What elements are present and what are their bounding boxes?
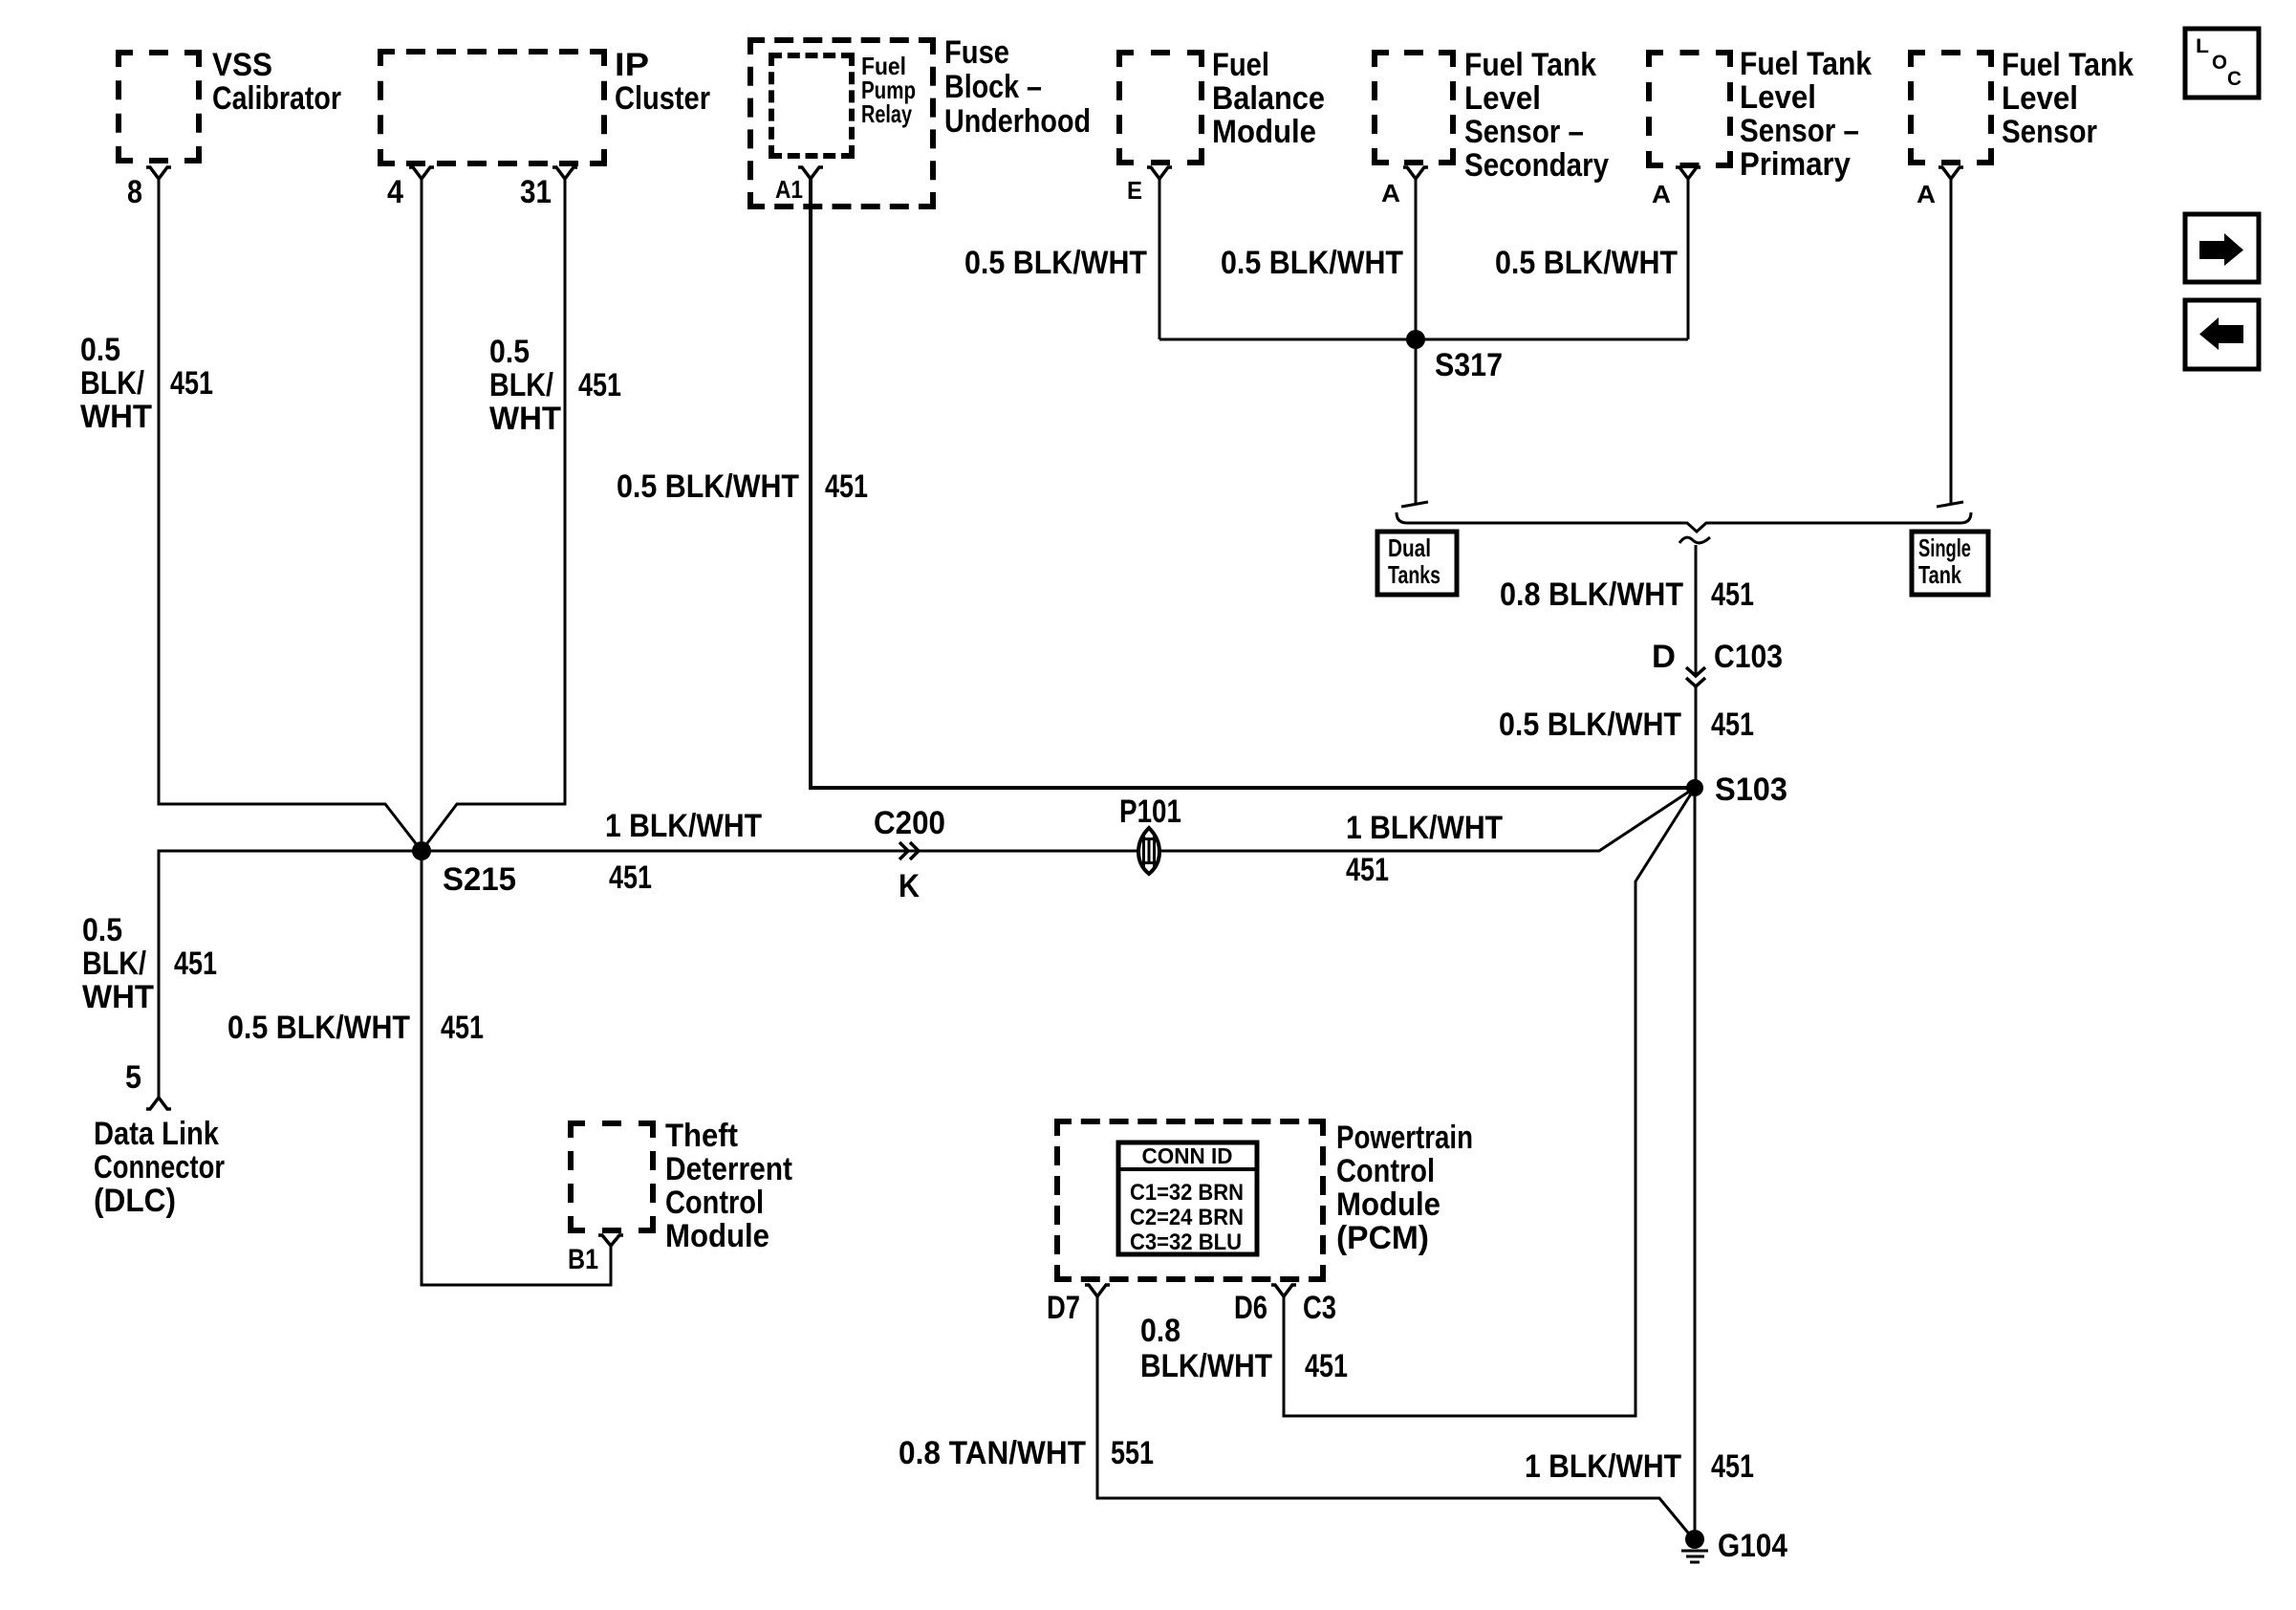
component box IP Cluster bbox=[380, 47, 710, 163]
component box Fuel Tank Level Sensor bbox=[1911, 47, 2134, 163]
svg-text:Module: Module bbox=[665, 1218, 769, 1254]
wire IP pin 4 to S215 bbox=[421, 179, 423, 851]
wire label 0.5 BLK/WHT 451 (IP 31 wire) bbox=[489, 334, 621, 437]
svg-text:A: A bbox=[1652, 180, 1671, 208]
wire E to S317 bbox=[1159, 179, 1161, 339]
svg-text:0.5 BLK/WHT: 0.5 BLK/WHT bbox=[1495, 245, 1678, 281]
svg-text:Level: Level bbox=[1464, 80, 1541, 117]
svg-text:0.5 BLK/WHT: 0.5 BLK/WHT bbox=[1221, 245, 1403, 281]
legend left arrow box bbox=[2185, 300, 2259, 369]
svg-text:BLK/: BLK/ bbox=[80, 365, 144, 402]
svg-text:S317: S317 bbox=[1435, 347, 1503, 383]
svg-text:A1: A1 bbox=[775, 175, 803, 204]
svg-text:1 BLK/WHT: 1 BLK/WHT bbox=[1525, 1448, 1681, 1485]
svg-text:C2=24 BRN: C2=24 BRN bbox=[1130, 1205, 1244, 1230]
svg-text:C3=32 BLU: C3=32 BLU bbox=[1130, 1229, 1242, 1255]
svg-text:Module: Module bbox=[1212, 114, 1316, 150]
svg-text:451: 451 bbox=[609, 859, 652, 896]
component box Fuel Balance Module bbox=[1119, 47, 1325, 163]
svg-text:A: A bbox=[1917, 180, 1936, 208]
wire label 0.5 BLK/WHT 451 (below S215) bbox=[227, 1010, 484, 1046]
svg-text:IP: IP bbox=[615, 47, 649, 83]
svg-text:C: C bbox=[2227, 68, 2242, 90]
pin A of secondary sensor bbox=[1381, 167, 1428, 207]
svg-text:Relay: Relay bbox=[861, 99, 912, 128]
svg-text:C200: C200 bbox=[874, 805, 945, 841]
svg-text:Primary: Primary bbox=[1740, 146, 1851, 183]
svg-text:451: 451 bbox=[825, 468, 868, 505]
pin A of primary sensor bbox=[1652, 167, 1700, 208]
svg-text:(PCM): (PCM) bbox=[1336, 1220, 1429, 1256]
svg-text:B1: B1 bbox=[568, 1244, 598, 1275]
svg-text:Control: Control bbox=[665, 1185, 764, 1221]
label box Single Tank bbox=[1912, 532, 1988, 595]
svg-text:Calibrator: Calibrator bbox=[212, 80, 341, 117]
component box Fuel Tank Level Sensor - Secondary bbox=[1375, 47, 1609, 184]
pin 8 of VSS Calibrator bbox=[127, 167, 171, 210]
pin 31 of IP Cluster bbox=[520, 167, 577, 210]
wire C103 to S103 bbox=[1695, 686, 1698, 788]
svg-text:C103: C103 bbox=[1714, 639, 1783, 675]
svg-text:Secondary: Secondary bbox=[1464, 147, 1609, 184]
wire label 0.8 BLK/WHT 451 (D6 wire) bbox=[1140, 1313, 1348, 1384]
svg-text:Sensor –: Sensor – bbox=[1740, 113, 1859, 149]
svg-text:451: 451 bbox=[441, 1010, 484, 1046]
svg-text:Dual: Dual bbox=[1388, 533, 1431, 562]
wire IP pin 31 to S215 bbox=[422, 179, 565, 851]
component box VSS Calibrator bbox=[119, 47, 341, 161]
svg-text:4: 4 bbox=[387, 174, 403, 210]
svg-text:WHT: WHT bbox=[80, 399, 152, 435]
component box Powertrain Control Module (PCM) bbox=[1057, 1120, 1473, 1279]
svg-text:Module: Module bbox=[1336, 1186, 1440, 1223]
svg-text:Fuel Tank: Fuel Tank bbox=[2002, 47, 2134, 83]
pin E of Fuel Balance Module bbox=[1127, 167, 1172, 205]
wire fuse block A1 to S103 bbox=[811, 179, 1690, 788]
inline connector C200 pin K bbox=[874, 805, 945, 904]
pin B1 of Theft Deterrent Control Module bbox=[568, 1235, 623, 1275]
svg-text:Deterrent: Deterrent bbox=[665, 1151, 792, 1187]
component box Fuse Block - Underhood bbox=[750, 34, 1091, 207]
svg-text:P101: P101 bbox=[1119, 794, 1181, 830]
svg-text:Tanks: Tanks bbox=[1388, 560, 1440, 589]
pin 4 of IP Cluster bbox=[387, 167, 434, 210]
svg-text:1 BLK/WHT: 1 BLK/WHT bbox=[1346, 810, 1503, 846]
pin D7 of PCM bbox=[1047, 1285, 1110, 1326]
svg-text:BLK/: BLK/ bbox=[82, 946, 146, 982]
svg-text:451: 451 bbox=[1711, 1448, 1754, 1485]
wire VSS pin 8 to S215 bbox=[159, 179, 422, 851]
svg-text:0.5: 0.5 bbox=[80, 332, 120, 368]
svg-text:8: 8 bbox=[127, 174, 142, 210]
svg-text:S215: S215 bbox=[443, 861, 516, 898]
svg-text:S103: S103 bbox=[1715, 772, 1787, 808]
svg-text:451: 451 bbox=[170, 365, 213, 402]
svg-text:Underhood: Underhood bbox=[944, 103, 1091, 140]
options brace joining dual/single tank feeds bbox=[1397, 512, 1971, 532]
wire secondary sensor A through S317 to options brace bbox=[1415, 179, 1418, 504]
splice S215 bbox=[412, 841, 516, 898]
svg-text:0.5: 0.5 bbox=[489, 334, 530, 370]
pin A1 of fuse block bbox=[775, 167, 823, 204]
svg-text:WHT: WHT bbox=[489, 401, 561, 437]
svg-text:0.5 BLK/WHT: 0.5 BLK/WHT bbox=[227, 1010, 410, 1046]
svg-text:Tank: Tank bbox=[1918, 560, 1961, 589]
CONN ID table inside PCM bbox=[1118, 1142, 1257, 1255]
svg-text:0.8 BLK/WHT: 0.8 BLK/WHT bbox=[1500, 577, 1683, 613]
svg-text:451: 451 bbox=[1346, 852, 1389, 888]
wire S215 to C200 bbox=[422, 850, 1138, 853]
svg-text:L: L bbox=[2196, 35, 2209, 57]
svg-text:451: 451 bbox=[1711, 707, 1754, 743]
svg-text:D: D bbox=[1652, 639, 1676, 675]
svg-text:C1=32 BRN: C1=32 BRN bbox=[1130, 1180, 1244, 1206]
wire D7 to G104 bbox=[1097, 1296, 1692, 1537]
svg-text:Theft: Theft bbox=[665, 1118, 738, 1154]
wire label 0.5 BLK/WHT 451 (DLC wire) bbox=[82, 912, 217, 1015]
svg-text:Fuel: Fuel bbox=[1212, 47, 1269, 83]
wire label 1 BLK/WHT 451 (S215 to C200) bbox=[605, 808, 762, 896]
ground G104 bbox=[1681, 1528, 1787, 1564]
svg-text:1 BLK/WHT: 1 BLK/WHT bbox=[605, 808, 762, 844]
svg-text:VSS: VSS bbox=[212, 47, 272, 83]
pin 5 of Data Link Connector bbox=[125, 1059, 171, 1109]
label box Dual Tanks bbox=[1377, 532, 1457, 595]
component box Fuel Tank Level Sensor - Primary bbox=[1649, 46, 1872, 183]
svg-text:Single: Single bbox=[1918, 533, 1971, 562]
pin A of fuel tank level sensor bbox=[1917, 167, 1963, 208]
svg-text:Fuel Tank: Fuel Tank bbox=[1740, 46, 1872, 82]
wire single sensor A to options brace bbox=[1950, 179, 1953, 504]
wire S215 to theft deterrent B1 bbox=[422, 851, 611, 1285]
svg-text:0.5 BLK/WHT: 0.5 BLK/WHT bbox=[1499, 707, 1681, 743]
svg-text:Control: Control bbox=[1336, 1153, 1435, 1189]
svg-text:Level: Level bbox=[1740, 79, 1816, 116]
splice S317 bbox=[1159, 330, 1688, 383]
wire label 0.8 BLK/WHT 451 bbox=[1500, 577, 1754, 613]
svg-text:Fuse: Fuse bbox=[944, 34, 1009, 71]
svg-text:G104: G104 bbox=[1718, 1528, 1787, 1564]
svg-text:WHT: WHT bbox=[82, 979, 154, 1015]
wire label 1 BLK/WHT 451 (P101 to S103) bbox=[1346, 810, 1503, 888]
svg-text:Level: Level bbox=[2002, 80, 2078, 117]
component box Theft Deterrent Control Module bbox=[571, 1118, 792, 1254]
svg-text:31: 31 bbox=[520, 174, 552, 210]
svg-text:BLK/WHT: BLK/WHT bbox=[1140, 1348, 1272, 1384]
svg-text:D6: D6 bbox=[1234, 1290, 1267, 1326]
wire brace to connector C103 (with splice squiggle) bbox=[1679, 537, 1710, 676]
wire label 0.8 TAN/WHT 551 bbox=[899, 1435, 1154, 1471]
svg-text:BLK/: BLK/ bbox=[489, 367, 553, 403]
svg-text:0.5 BLK/WHT: 0.5 BLK/WHT bbox=[617, 468, 799, 505]
wire label 0.5 BLK/WHT 451 (A1 wire) bbox=[617, 468, 868, 505]
wire label 1 BLK/WHT 451 (S103 to G104) bbox=[1525, 1448, 1754, 1485]
component box Fuel Pump Relay (inside fuse block) bbox=[771, 52, 916, 156]
legend LOC box bbox=[2185, 29, 2259, 98]
wire D6/C3 to S103 bbox=[1284, 788, 1695, 1416]
svg-text:(DLC): (DLC) bbox=[94, 1183, 176, 1219]
wire S215 to DLC pin 5 bbox=[159, 851, 422, 1098]
svg-text:451: 451 bbox=[1711, 577, 1754, 613]
inline connector C103 pin D bbox=[1652, 639, 1783, 686]
svg-text:Balance: Balance bbox=[1212, 80, 1325, 117]
svg-text:0.8: 0.8 bbox=[1140, 1313, 1180, 1349]
svg-text:451: 451 bbox=[174, 946, 217, 982]
svg-text:451: 451 bbox=[1305, 1348, 1348, 1384]
svg-text:Cluster: Cluster bbox=[615, 80, 710, 117]
svg-text:Sensor: Sensor bbox=[2002, 114, 2097, 150]
wire end tick (single tank feed) bbox=[1937, 502, 1963, 507]
wire end tick (dual tanks feed) bbox=[1401, 502, 1428, 507]
svg-text:C3: C3 bbox=[1303, 1290, 1336, 1326]
svg-text:CONN ID: CONN ID bbox=[1142, 1143, 1233, 1168]
legend right arrow box bbox=[2185, 214, 2259, 282]
svg-text:551: 551 bbox=[1111, 1435, 1154, 1471]
splice S103 bbox=[1686, 772, 1787, 808]
wire primary sensor A to S317 bus bbox=[1687, 179, 1690, 339]
svg-text:Powertrain: Powertrain bbox=[1336, 1120, 1473, 1156]
wire S103 to G104 bbox=[1694, 788, 1697, 1539]
svg-text:Fuel Tank: Fuel Tank bbox=[1464, 47, 1596, 83]
svg-text:Sensor –: Sensor – bbox=[1464, 114, 1584, 150]
svg-text:0.8 TAN/WHT: 0.8 TAN/WHT bbox=[899, 1435, 1086, 1471]
svg-text:Connector: Connector bbox=[94, 1149, 225, 1186]
svg-text:0.5: 0.5 bbox=[82, 912, 122, 948]
wire P101 to S103 bbox=[1158, 788, 1695, 851]
svg-text:A: A bbox=[1381, 179, 1400, 207]
svg-text:0.5 BLK/WHT: 0.5 BLK/WHT bbox=[964, 245, 1147, 281]
svg-text:Block –: Block – bbox=[944, 69, 1042, 105]
pin D6 / C3 of PCM bbox=[1234, 1285, 1336, 1326]
wire label 0.5 BLK/WHT 451 (VSS wire) bbox=[80, 332, 213, 435]
svg-text:5: 5 bbox=[125, 1059, 141, 1096]
svg-text:D7: D7 bbox=[1047, 1290, 1080, 1326]
svg-text:Data Link: Data Link bbox=[94, 1116, 219, 1152]
svg-text:E: E bbox=[1127, 176, 1142, 205]
svg-text:451: 451 bbox=[578, 367, 621, 403]
wire label 0.5 BLK/WHT 451 (C103 to S103) bbox=[1499, 707, 1754, 743]
grommet P101 bbox=[1119, 794, 1181, 874]
svg-text:O: O bbox=[2212, 52, 2227, 74]
svg-text:K: K bbox=[899, 868, 920, 904]
label Data Link Connector (DLC) bbox=[94, 1116, 225, 1219]
